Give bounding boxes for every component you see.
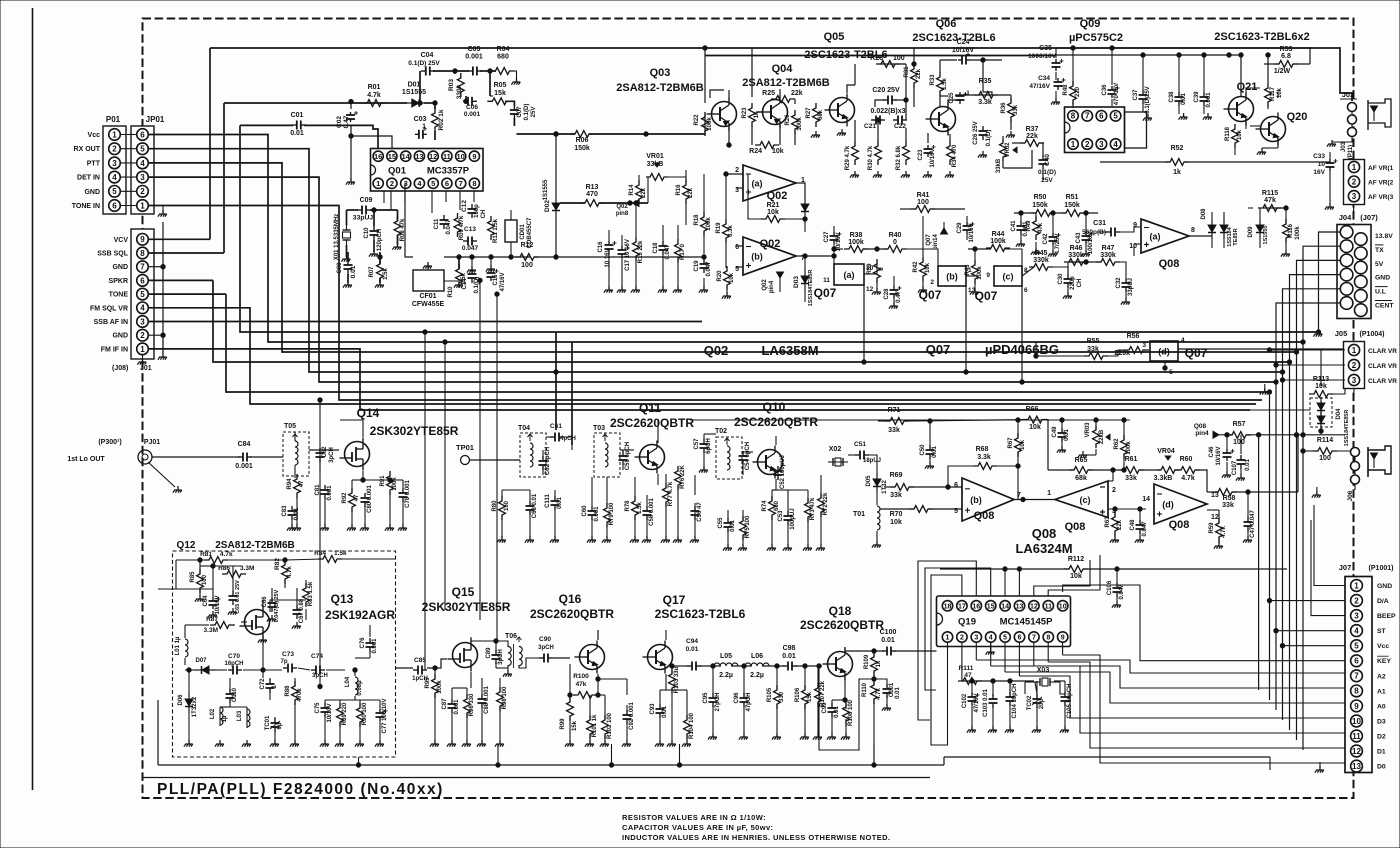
svg-text:R35: R35: [979, 78, 992, 85]
wire P01-JP01: [120, 148, 136, 150]
svg-text:8: 8: [1046, 635, 1050, 642]
ceramic CD01: [505, 217, 533, 248]
svg-text:33k: 33k: [1087, 346, 1099, 353]
svg-text:(b): (b): [970, 495, 982, 505]
diode D03 upper: [801, 198, 809, 218]
svg-text:13: 13: [1016, 603, 1024, 610]
svg-text:R118: R118: [1225, 126, 1231, 141]
inductor L05: [714, 653, 738, 679]
transistor Q18: [800, 604, 884, 681]
resistor R101 1k: [587, 714, 598, 739]
capacitor C111: [545, 493, 563, 510]
svg-text:10 16V: 10 16V: [605, 248, 611, 267]
resistor R07: [369, 259, 389, 283]
svg-text:3: 3: [112, 159, 117, 168]
resistor R40 0: [883, 232, 907, 252]
svg-text:47k: 47k: [576, 681, 587, 688]
resistor R111 47: [958, 665, 982, 684]
svg-text:KEY: KEY: [1377, 658, 1391, 665]
svg-text:CLAR VR: CLAR VR: [1368, 378, 1397, 385]
svg-text:10k: 10k: [767, 209, 779, 216]
resistor R02 1k: [432, 108, 445, 132]
svg-text:330k: 330k: [456, 84, 463, 99]
resistor R82 4.7k: [274, 558, 293, 584]
svg-text:2SC1623-T2BL6: 2SC1623-T2BL6: [912, 32, 995, 44]
svg-text:1.5k: 1.5k: [383, 268, 389, 280]
svg-text:6: 6: [1018, 635, 1022, 642]
wires Q19 bottom: [948, 642, 1066, 730]
label GND: [112, 333, 128, 340]
label D2: [1377, 734, 1386, 741]
svg-text:22k: 22k: [1117, 519, 1123, 530]
svg-text:0: 0: [893, 239, 897, 246]
svg-text:D08: D08: [1201, 208, 1207, 220]
svg-text:TC02: TC02: [1027, 695, 1033, 710]
svg-text:D06: D06: [178, 694, 184, 706]
wire JP01 pin6 run: [148, 135, 1305, 345]
svg-text:(a): (a): [844, 270, 855, 280]
svg-text:CH: CH: [481, 210, 487, 219]
label A1: [1377, 688, 1386, 695]
svg-text:2: 2: [1354, 596, 1359, 605]
testpoint TP01: [456, 443, 520, 465]
svg-text:16: 16: [972, 603, 980, 610]
svg-text:R77 4.7k: R77 4.7k: [668, 481, 674, 506]
svg-text:150k: 150k: [574, 145, 590, 152]
wires D row: [609, 170, 686, 290]
svg-text:C09: C09: [360, 197, 373, 204]
svg-text:TE85R: TE85R: [1233, 228, 1239, 245]
svg-text:J01: J01: [140, 365, 152, 372]
resistor R78 1.5k: [625, 496, 643, 520]
svg-text:Q09: Q09: [1080, 18, 1101, 30]
svg-text:100k: 100k: [977, 266, 983, 280]
svg-text:JP01: JP01: [146, 115, 165, 124]
svg-text:R42: R42: [913, 261, 919, 273]
svg-text:R88: R88: [285, 685, 291, 697]
svg-text:C18: C18: [653, 242, 659, 254]
label RX OUT: [74, 146, 101, 153]
svg-text:22k: 22k: [688, 187, 694, 198]
resistor R79 100: [604, 502, 615, 527]
resistor R103 33u: [669, 666, 680, 693]
label VCV: [114, 237, 129, 244]
wire Q01 top: [363, 71, 437, 140]
transistor Q03: [707, 98, 737, 131]
resistor R19 3.3k: [716, 219, 734, 243]
svg-text:(J07): (J07): [1360, 213, 1378, 222]
switch Q07b: [919, 266, 976, 302]
svg-text:R106: R106: [795, 687, 801, 702]
svg-text:3.3M: 3.3M: [240, 565, 254, 572]
svg-text:C74: C74: [311, 653, 323, 660]
svg-text:1S1555: 1S1555: [402, 89, 426, 96]
wire center horiz 3: [690, 419, 1130, 421]
svg-text:C110: C110: [232, 687, 238, 702]
svg-text:SPKR: SPKR: [109, 278, 128, 285]
svg-text:7p: 7p: [280, 659, 287, 665]
svg-text:47/16V: 47/16V: [500, 272, 506, 291]
svg-text:C58 0.001: C58 0.001: [649, 498, 655, 526]
grounds Q12: [184, 608, 384, 747]
svg-text:D02: D02: [544, 200, 551, 212]
label SSB SQL: [97, 251, 128, 258]
svg-text:8: 8: [1354, 687, 1359, 696]
resistor R49 47k: [1026, 216, 1044, 240]
inductor T01: [853, 506, 880, 530]
svg-text:7: 7: [459, 179, 463, 188]
svg-text:R11 1.5k: R11 1.5k: [493, 218, 499, 243]
capacitor C20: [872, 87, 900, 105]
svg-text:C94: C94: [686, 638, 698, 645]
svg-text:22k: 22k: [791, 90, 803, 97]
resistor R15 22k: [633, 237, 644, 263]
label TONE: [109, 292, 129, 299]
capacitor C18: [653, 241, 671, 260]
svg-text:GND: GND: [84, 189, 100, 196]
wire Q01 pins down: [384, 191, 474, 213]
wire verticals mid: [318, 330, 447, 670]
wire D3 run: [1019, 676, 1345, 718]
svg-text:1SS184TE85R: 1SS184TE85R: [1344, 410, 1350, 447]
svg-text:R96 330: R96 330: [469, 693, 475, 716]
svg-text:1: 1: [376, 179, 380, 188]
svg-text:R22: R22: [694, 114, 700, 126]
wire vertical x572: [571, 342, 573, 445]
transistor Q04: [758, 96, 788, 129]
svg-text:6pCH: 6pCH: [706, 438, 712, 454]
resistor R16 22k: [676, 180, 694, 204]
svg-text:(P300¹): (P300¹): [98, 439, 121, 446]
wire D0 run: [1063, 655, 1345, 763]
svg-text:33kB: 33kB: [996, 158, 1002, 173]
svg-text:13: 13: [1211, 492, 1219, 499]
resistor R26 100k: [785, 110, 803, 134]
svg-text:Q02: Q02: [760, 238, 781, 250]
capacitor C05: [465, 46, 483, 76]
svg-text:RX OUT: RX OUT: [74, 146, 101, 153]
svg-text:0.01: 0.01: [290, 130, 304, 137]
svg-text:ST: ST: [1377, 628, 1387, 635]
connector P01: [103, 126, 126, 214]
svg-text:0.47: 0.47: [896, 291, 902, 303]
wire KEY run: [1063, 585, 1345, 661]
wires Q14: [250, 420, 403, 492]
svg-text:120pCH: 120pCH: [377, 229, 383, 251]
svg-text:R07: R07: [369, 266, 375, 278]
svg-text:7: 7: [1032, 635, 1036, 642]
crystal X02: [828, 446, 848, 466]
capacitor C85: [412, 657, 428, 682]
svg-text:2SK302YTE85R: 2SK302YTE85R: [422, 600, 511, 614]
svg-text:R78: R78: [625, 500, 631, 512]
svg-text:8: 8: [1071, 112, 1076, 121]
wire bus y392: [226, 294, 1272, 394]
op-amp Q02b: [735, 237, 805, 275]
svg-text:Q04: Q04: [772, 63, 794, 75]
wires Q10: [704, 434, 877, 548]
svg-text:9: 9: [1061, 635, 1065, 642]
svg-text:C63 0.01: C63 0.01: [532, 493, 538, 518]
capacitor C14: [462, 269, 480, 293]
svg-text:µPD4066BG: µPD4066BG: [985, 342, 1059, 357]
capacitor C55: [718, 517, 736, 532]
capacitor C76: [360, 637, 378, 654]
wire center horiz 2: [360, 409, 1310, 411]
svg-text:1: 1: [112, 130, 117, 139]
svg-text:100: 100: [521, 262, 533, 269]
svg-text:R61: R61: [1125, 456, 1138, 463]
svg-text:C47 0.047: C47 0.047: [1250, 510, 1256, 538]
label KEY: [1377, 656, 1391, 665]
svg-text:pin4: pin4: [1195, 430, 1209, 437]
svg-text:R70: R70: [890, 511, 903, 518]
svg-text:3: 3: [1142, 342, 1146, 349]
svg-text:2SC2620QBTR: 2SC2620QBTR: [800, 618, 884, 632]
svg-text:R52: R52: [1171, 145, 1184, 152]
capacitor C100: [880, 629, 897, 656]
grounds D row: [604, 286, 682, 293]
svg-text:3.3k: 3.3k: [977, 454, 991, 461]
label Q05: [804, 31, 887, 61]
svg-text:C37: C37: [1133, 89, 1139, 101]
svg-text:C25: C25: [949, 92, 955, 104]
svg-text:Q15: Q15: [452, 585, 475, 599]
svg-text:R23: R23: [742, 107, 748, 119]
svg-text:J06: J06: [1347, 490, 1354, 501]
svg-text:11: 11: [823, 277, 830, 284]
label Q02 pin4: [762, 272, 784, 293]
svg-text:0.047: 0.047: [1142, 521, 1148, 537]
svg-text:Q05: Q05: [824, 31, 845, 43]
svg-text:R29 4.7k: R29 4.7k: [845, 145, 851, 170]
capacitor C04: [408, 52, 440, 76]
svg-text:16V: 16V: [1313, 169, 1325, 176]
capacitor C15: [487, 269, 507, 292]
svg-text:5: 5: [1113, 112, 1118, 121]
fet Q13: [240, 592, 396, 639]
wires Q07 row: [830, 209, 1072, 384]
svg-text:J05: J05: [1335, 329, 1348, 338]
resistor R80 150: [492, 496, 510, 520]
labels CLAR VR: [1368, 348, 1397, 385]
svg-text:1: 1: [422, 123, 426, 130]
capacitor C53: [778, 508, 796, 529]
svg-text:J02: J02: [1342, 90, 1355, 99]
grounds Q18: [708, 704, 891, 740]
svg-text:47/16V: 47/16V: [1029, 83, 1050, 90]
capacitor C82: [316, 446, 336, 463]
svg-text:PLL/PA(PLL) F2824000 (No.40xx): PLL/PA(PLL) F2824000 (No.40xx): [157, 781, 444, 798]
svg-text:R115: R115: [1262, 190, 1278, 197]
svg-text:0.001: 0.001: [464, 111, 481, 118]
svg-text:X01 13.5335MHz: X01 13.5335MHz: [334, 214, 340, 260]
svg-text:LA6358M: LA6358M: [761, 343, 818, 358]
transistor Q20: [1256, 111, 1308, 146]
wire q12 bus: [158, 560, 213, 589]
svg-text:SSB SQL: SSB SQL: [97, 251, 128, 258]
svg-text:C76: C76: [360, 637, 366, 649]
svg-text:5: 5: [140, 145, 145, 154]
svg-text:R33: R33: [930, 74, 936, 86]
label D3: [1377, 719, 1386, 726]
svg-text:0.01: 0.01: [834, 706, 840, 718]
svg-text:CD01: CD01: [520, 224, 526, 240]
connector J01: [131, 229, 154, 359]
wires R57 J06: [1219, 433, 1355, 498]
resistor R38 100k: [844, 232, 868, 252]
svg-text:6: 6: [445, 179, 449, 188]
svg-text:47: 47: [354, 494, 360, 501]
label Q03: [616, 67, 703, 94]
wires Q08a region: [1014, 206, 1290, 305]
svg-text:1.5k: 1.5k: [637, 502, 643, 514]
resistor R100 47k: [573, 673, 597, 698]
svg-text:MC145145P: MC145145P: [1000, 617, 1053, 628]
svg-text:C67 0.88: C67 0.88: [299, 598, 305, 623]
resistor R116 100k: [1283, 219, 1301, 243]
svg-text:Q08: Q08: [1159, 258, 1180, 270]
svg-text:R79 100: R79 100: [609, 502, 615, 525]
capacitor C62: [539, 447, 552, 475]
resistor R66 10k: [1023, 406, 1047, 431]
transistor Q16: [530, 592, 614, 674]
grounds E row: [811, 129, 1015, 178]
capacitor C22: [893, 116, 907, 131]
svg-text:C43: C43: [1076, 232, 1082, 244]
svg-text:22k: 22k: [916, 68, 922, 79]
capacitor C81: [315, 484, 333, 501]
svg-text:(a): (a): [752, 179, 763, 189]
transistor Q05: [825, 94, 855, 127]
svg-text:Vcc: Vcc: [88, 132, 101, 139]
resistor R17 0: [675, 239, 686, 263]
svg-text:1k: 1k: [876, 660, 882, 667]
svg-text:Q21: Q21: [1237, 81, 1258, 93]
svg-text:R116: R116: [1288, 223, 1294, 238]
svg-text:R60: R60: [1180, 456, 1193, 463]
svg-text:2SC2620QBTR: 2SC2620QBTR: [734, 415, 818, 429]
wires Q08c: [1057, 418, 1146, 543]
svg-text:6: 6: [954, 482, 958, 489]
label CENT: [1375, 301, 1394, 310]
svg-text:C83: C83: [282, 505, 288, 517]
svg-text:R40: R40: [889, 232, 902, 239]
op-amp Q02a: [735, 165, 805, 202]
wire J01 GND rail: [148, 222, 165, 353]
svg-text:100k: 100k: [706, 217, 712, 231]
svg-text:100k: 100k: [797, 117, 803, 131]
svg-text:0.1(D): 0.1(D): [986, 130, 992, 147]
capacitor C51: [854, 441, 881, 464]
svg-text:C01: C01: [291, 112, 304, 119]
svg-text:0.001: 0.001: [454, 699, 460, 715]
capacitor C64: [203, 595, 221, 615]
wire J01 FMSQL run: [148, 308, 1256, 404]
svg-text:220p: 220p: [1070, 276, 1076, 290]
svg-text:7: 7: [1354, 672, 1359, 681]
svg-text:J04: J04: [1339, 213, 1352, 222]
svg-text:L06: L06: [751, 653, 763, 660]
svg-text:R63: R63: [1105, 516, 1111, 528]
svg-text:SSB AF IN: SSB AF IN: [94, 319, 128, 326]
connector J04: [1337, 225, 1371, 319]
capacitor C24: [952, 39, 975, 65]
svg-text:C48: C48: [1130, 519, 1136, 531]
wire R13 line: [560, 201, 648, 205]
svg-text:4: 4: [989, 635, 993, 642]
svg-text:R73 47k: R73 47k: [810, 497, 816, 520]
transformer T06: [505, 633, 522, 668]
resistor R92 47: [342, 488, 360, 512]
label D1: [1377, 749, 1386, 756]
svg-text:150k: 150k: [1064, 202, 1080, 209]
label D0: [1377, 764, 1386, 771]
capacitor C06: [463, 97, 481, 118]
op-amp Q08c: [1047, 481, 1116, 533]
svg-text:1/2W: 1/2W: [1274, 68, 1291, 75]
svg-text:AF VR(2: AF VR(2: [1368, 180, 1394, 187]
diode D07: [195, 658, 215, 674]
wire JP01 pin4 run: [148, 163, 1298, 354]
wire BEEP run: [1311, 520, 1345, 616]
svg-text:R62: R62: [1114, 438, 1120, 450]
capacitor C73: [280, 651, 297, 673]
label GND: [84, 189, 100, 196]
svg-text:3: 3: [1354, 612, 1359, 621]
svg-text:C95: C95: [703, 692, 709, 704]
resistor R56 220k: [1114, 333, 1148, 357]
ground R04: [509, 71, 520, 85]
wires Q21 Q20: [1235, 48, 1310, 155]
wire vert x1258: [1256, 433, 1260, 690]
svg-text:3.3k: 3.3k: [978, 99, 992, 106]
svg-text:C60: C60: [582, 505, 588, 517]
svg-text:2: 2: [140, 187, 145, 196]
svg-text:12: 12: [429, 152, 437, 161]
capacitor C47: [1244, 510, 1257, 538]
svg-text:0.001: 0.001: [1206, 92, 1212, 108]
inductor L06: [745, 653, 769, 679]
capacitor C89: [486, 647, 504, 665]
capacitor C80: [361, 485, 374, 513]
fet Q14: [340, 406, 459, 471]
op-amp Q08d: [1142, 484, 1219, 531]
svg-text:1: 1: [140, 201, 145, 210]
label FM IF IN: [101, 346, 128, 353]
svg-text:R36: R36: [1001, 102, 1007, 114]
capacitor C26: [973, 121, 992, 146]
svg-text:0.047: 0.047: [462, 245, 479, 252]
svg-text:C02: C02: [336, 116, 343, 128]
svg-text:C40: C40: [1044, 154, 1051, 166]
capacitor C43: [1076, 232, 1094, 254]
svg-text:R26: R26: [785, 114, 791, 126]
svg-text:2SC1623-T2BL6x2: 2SC1623-T2BL6x2: [1214, 31, 1309, 43]
resistor R20 10k: [717, 266, 735, 290]
svg-text:10k: 10k: [1020, 439, 1026, 450]
svg-text:8: 8: [140, 249, 145, 258]
svg-text:0.01: 0.01: [782, 653, 796, 660]
resistor R107 22k: [815, 680, 826, 707]
capacitor C32: [1116, 277, 1134, 296]
wire JP01 pin5 run: [148, 149, 1284, 374]
svg-text:T01: T01: [853, 511, 865, 518]
svg-text:Q17: Q17: [663, 593, 686, 607]
svg-text:R18: R18: [694, 214, 700, 226]
resistor R42 10k: [913, 257, 931, 281]
svg-text:10k: 10k: [1029, 424, 1041, 431]
